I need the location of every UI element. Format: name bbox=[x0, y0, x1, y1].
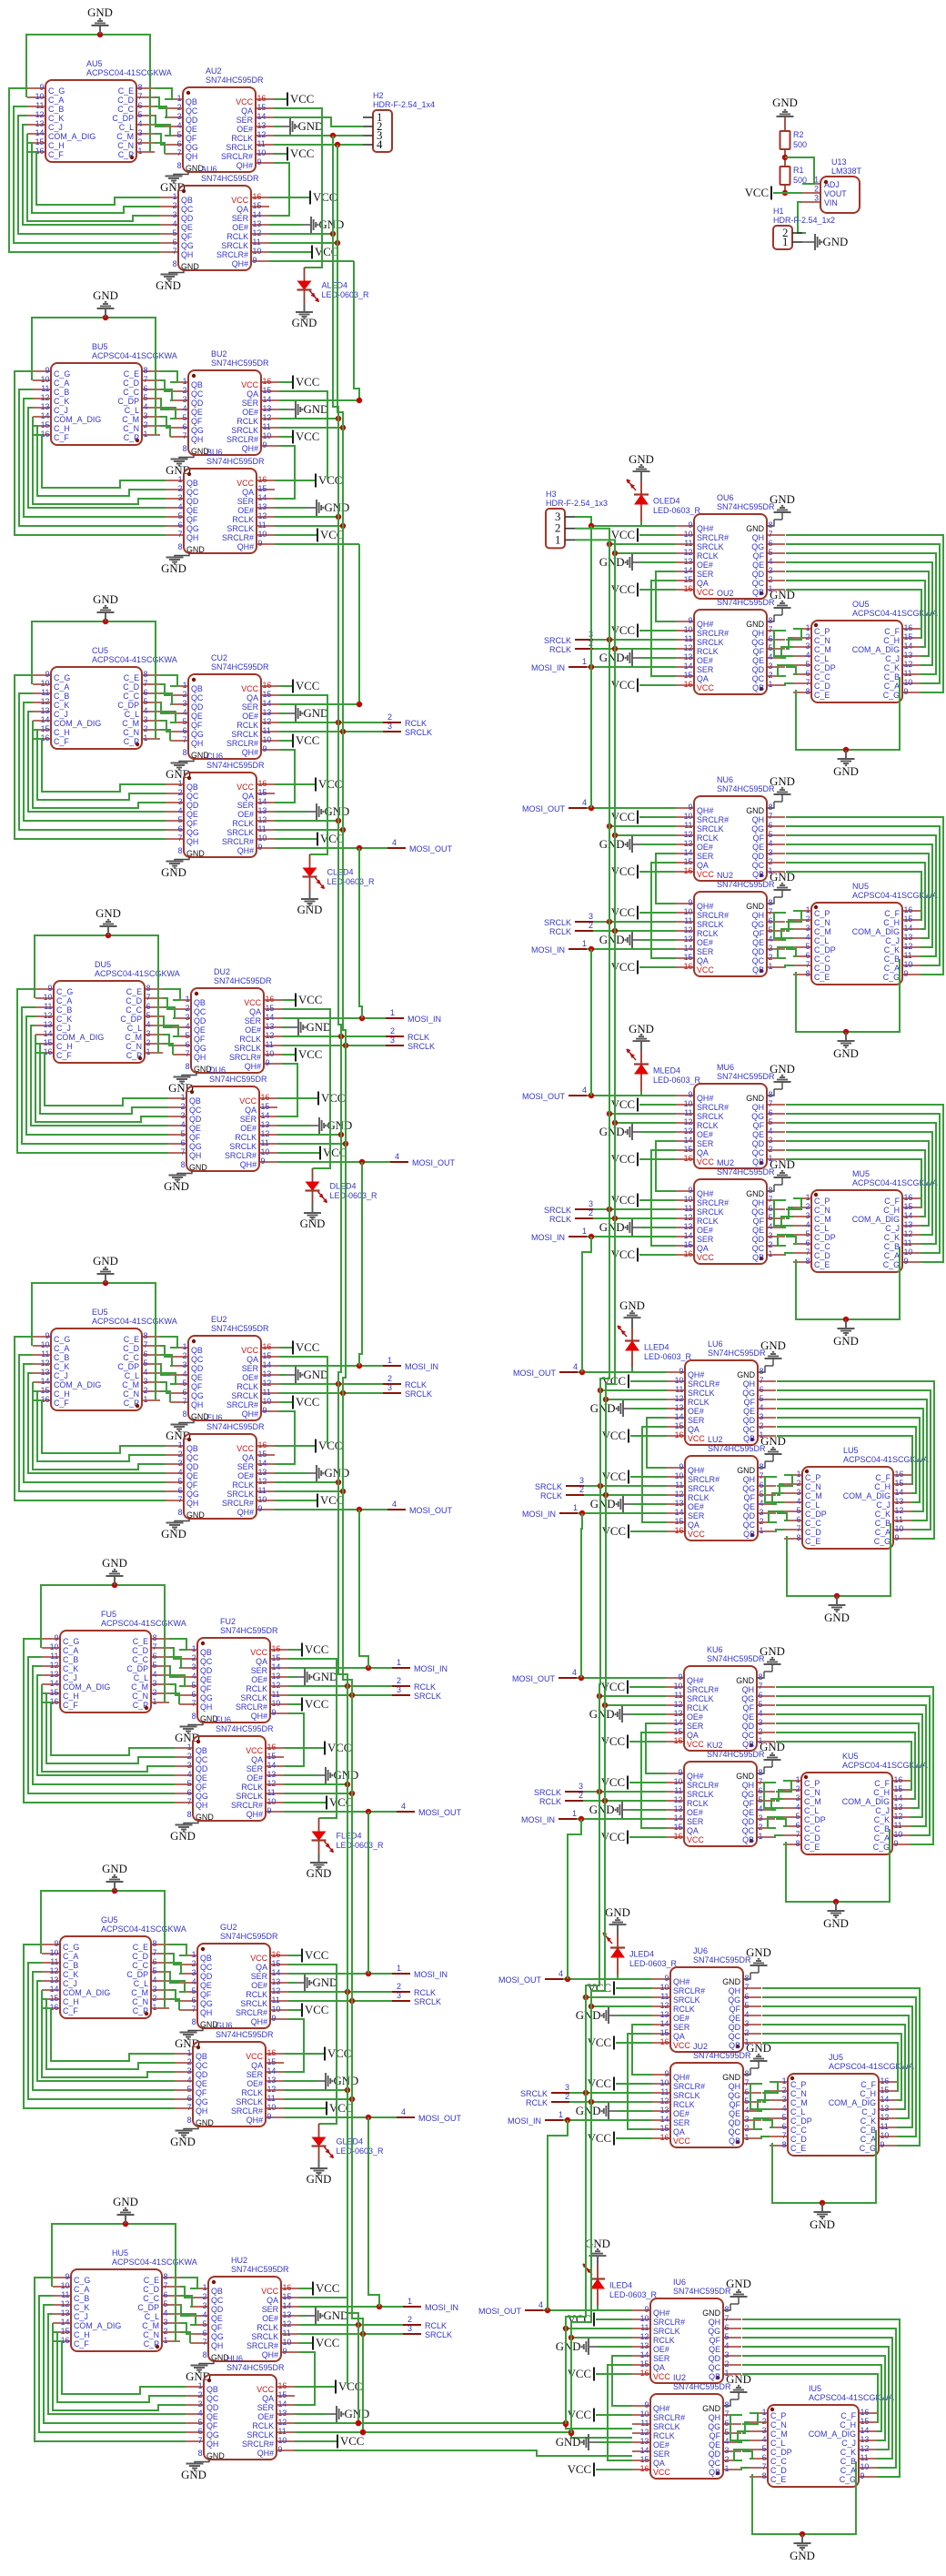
svg-text:SER: SER bbox=[245, 1016, 261, 1025]
svg-text:6: 6 bbox=[760, 1385, 764, 1394]
svg-text:SN74HC595DR: SN74HC595DR bbox=[717, 502, 775, 511]
svg-text:SER: SER bbox=[687, 1722, 703, 1731]
svg-text:4: 4 bbox=[559, 1969, 563, 1978]
svg-text:12: 12 bbox=[253, 228, 262, 237]
svg-text:QH#: QH# bbox=[687, 1772, 703, 1781]
svg-text:QB: QB bbox=[186, 479, 198, 488]
svg-text:GND: GND bbox=[619, 1299, 645, 1312]
svg-text:C_B: C_B bbox=[74, 2294, 89, 2303]
svg-text:QA: QA bbox=[247, 1355, 258, 1364]
svg-text:MOSI_IN: MOSI_IN bbox=[522, 1510, 556, 1519]
svg-text:C_K: C_K bbox=[874, 1815, 890, 1824]
svg-text:C_H: C_H bbox=[883, 918, 900, 927]
svg-text:C_E: C_E bbox=[124, 1335, 139, 1344]
svg-text:2: 2 bbox=[153, 1994, 157, 2003]
svg-text:QH#: QH# bbox=[653, 2308, 669, 2318]
svg-text:9: 9 bbox=[55, 1633, 59, 1642]
svg-text:16: 16 bbox=[272, 1950, 281, 1959]
svg-text:C_DP: C_DP bbox=[814, 945, 836, 955]
svg-text:5: 5 bbox=[144, 1359, 148, 1368]
svg-text:C_B: C_B bbox=[54, 388, 69, 397]
svg-text:C_F: C_F bbox=[54, 737, 69, 746]
svg-text:RCLK: RCLK bbox=[697, 833, 719, 843]
svg-text:GND: GND bbox=[599, 1221, 625, 1234]
svg-text:C_E: C_E bbox=[144, 2276, 159, 2285]
svg-text:GND: GND bbox=[810, 2218, 835, 2231]
svg-text:QA: QA bbox=[697, 1244, 709, 1253]
svg-text:MOSI_IN: MOSI_IN bbox=[414, 1664, 448, 1673]
svg-text:QE: QE bbox=[742, 1808, 754, 1817]
svg-text:6: 6 bbox=[745, 2087, 750, 2096]
svg-text:1: 1 bbox=[582, 1227, 587, 1236]
svg-text:4: 4 bbox=[762, 2435, 767, 2444]
svg-text:5: 5 bbox=[153, 1966, 157, 1975]
svg-text:QG: QG bbox=[751, 638, 764, 647]
svg-text:QB: QB bbox=[752, 1157, 764, 1167]
svg-text:8: 8 bbox=[187, 2116, 192, 2125]
svg-text:GND: GND bbox=[736, 1772, 754, 1781]
svg-text:C_B: C_B bbox=[884, 955, 900, 964]
svg-text:6: 6 bbox=[760, 1480, 764, 1490]
svg-text:2: 2 bbox=[769, 1240, 773, 1249]
svg-text:16: 16 bbox=[261, 1093, 270, 1102]
svg-text:QH#: QH# bbox=[247, 1810, 263, 1819]
svg-text:1: 1 bbox=[796, 1775, 800, 1784]
svg-text:QF: QF bbox=[753, 1121, 765, 1130]
svg-text:COM_A_DIG: COM_A_DIG bbox=[809, 2430, 856, 2439]
svg-text:7: 7 bbox=[806, 960, 810, 969]
svg-text:ACPSC04-41SCGKWA: ACPSC04-41SCGKWA bbox=[92, 351, 177, 360]
svg-text:QH#: QH# bbox=[251, 2017, 267, 2026]
svg-text:OU5: OU5 bbox=[852, 600, 870, 609]
svg-text:10: 10 bbox=[41, 1340, 50, 1349]
svg-text:QG: QG bbox=[186, 524, 199, 533]
svg-text:16: 16 bbox=[253, 192, 262, 201]
svg-text:SRCLK: SRCLK bbox=[697, 1207, 724, 1217]
svg-text:14: 14 bbox=[660, 2115, 669, 2124]
svg-text:QA: QA bbox=[251, 2061, 263, 2070]
svg-text:12: 12 bbox=[41, 393, 50, 402]
svg-text:QH#: QH# bbox=[245, 1062, 261, 1071]
svg-text:2: 2 bbox=[144, 420, 148, 429]
svg-text:C_L: C_L bbox=[125, 710, 139, 719]
svg-text:VCC: VCC bbox=[653, 2468, 670, 2477]
svg-text:2: 2 bbox=[183, 690, 187, 699]
svg-text:QC: QC bbox=[743, 1520, 756, 1530]
svg-text:3: 3 bbox=[144, 715, 148, 724]
svg-text:MU6: MU6 bbox=[717, 1063, 734, 1072]
svg-text:QF: QF bbox=[743, 1799, 755, 1808]
svg-text:14: 14 bbox=[50, 1679, 59, 1688]
svg-text:C_F: C_F bbox=[884, 627, 900, 636]
svg-text:C_B: C_B bbox=[63, 1655, 78, 1664]
svg-text:SRCLR#: SRCLR# bbox=[226, 739, 258, 748]
svg-text:QB: QB bbox=[729, 2041, 740, 2050]
svg-text:7: 7 bbox=[769, 530, 773, 539]
svg-text:1: 1 bbox=[769, 680, 773, 689]
svg-text:2: 2 bbox=[760, 1421, 764, 1430]
svg-text:SRCLR#: SRCLR# bbox=[697, 629, 729, 638]
svg-text:2: 2 bbox=[769, 671, 773, 680]
svg-text:C_B: C_B bbox=[840, 2457, 856, 2466]
svg-text:14: 14 bbox=[904, 1211, 913, 1220]
svg-text:9: 9 bbox=[263, 440, 267, 450]
svg-text:13: 13 bbox=[860, 2435, 870, 2444]
svg-text:VCC: VCC bbox=[745, 187, 769, 199]
svg-text:GND: GND bbox=[790, 2550, 815, 2562]
svg-text:C_K: C_K bbox=[54, 701, 69, 710]
svg-text:11: 11 bbox=[860, 2453, 869, 2462]
svg-text:11: 11 bbox=[283, 2329, 291, 2338]
svg-text:GND: GND bbox=[770, 589, 795, 601]
svg-text:C_DP: C_DP bbox=[112, 114, 134, 123]
svg-text:LED-0603_R: LED-0603_R bbox=[337, 2147, 385, 2156]
svg-text:C_F: C_F bbox=[884, 1197, 900, 1206]
svg-text:6: 6 bbox=[183, 726, 187, 735]
svg-text:1: 1 bbox=[397, 1964, 401, 1973]
svg-text:15: 15 bbox=[41, 724, 50, 733]
svg-text:10: 10 bbox=[35, 92, 45, 101]
svg-text:C_P: C_P bbox=[133, 2006, 148, 2015]
svg-text:ACPSC04-41SCGKWA: ACPSC04-41SCGKWA bbox=[101, 1924, 186, 1934]
svg-text:12: 12 bbox=[272, 1681, 281, 1690]
svg-text:2: 2 bbox=[589, 921, 593, 930]
svg-text:8: 8 bbox=[178, 1508, 183, 1517]
svg-text:3: 3 bbox=[759, 1718, 763, 1727]
svg-text:C_E: C_E bbox=[124, 673, 139, 682]
svg-text:QB: QB bbox=[191, 1346, 203, 1355]
svg-text:10: 10 bbox=[278, 2436, 287, 2445]
svg-text:C_M: C_M bbox=[814, 1215, 831, 1224]
svg-text:2: 2 bbox=[178, 788, 183, 797]
svg-text:SER: SER bbox=[688, 1416, 704, 1425]
svg-text:1: 1 bbox=[144, 1395, 148, 1404]
svg-text:5: 5 bbox=[138, 110, 143, 119]
svg-text:QH#: QH# bbox=[237, 542, 254, 551]
svg-text:15: 15 bbox=[35, 137, 45, 146]
svg-text:QE: QE bbox=[191, 1373, 203, 1382]
svg-text:10: 10 bbox=[50, 1948, 59, 1957]
svg-text:2: 2 bbox=[164, 2327, 168, 2336]
svg-text:OE#: OE# bbox=[242, 1373, 258, 1382]
svg-text:C_M: C_M bbox=[790, 2098, 808, 2107]
svg-text:MOSI_OUT: MOSI_OUT bbox=[409, 844, 453, 854]
svg-text:2: 2 bbox=[806, 914, 810, 924]
svg-text:9: 9 bbox=[895, 1533, 900, 1542]
svg-text:12: 12 bbox=[278, 2418, 287, 2427]
svg-text:GND: GND bbox=[161, 1528, 186, 1541]
svg-text:GND: GND bbox=[770, 775, 795, 788]
svg-text:9: 9 bbox=[904, 969, 909, 978]
svg-text:4: 4 bbox=[806, 651, 810, 660]
svg-text:QF: QF bbox=[200, 1990, 212, 1999]
svg-text:4: 4 bbox=[178, 806, 183, 815]
svg-text:13: 13 bbox=[61, 2308, 70, 2318]
svg-text:4: 4 bbox=[392, 838, 397, 847]
svg-text:VCC: VCC bbox=[305, 1949, 328, 1962]
svg-text:GND: GND bbox=[161, 866, 186, 879]
svg-text:QH: QH bbox=[200, 2008, 212, 2017]
svg-text:2: 2 bbox=[408, 2315, 412, 2324]
svg-text:9: 9 bbox=[665, 1974, 669, 1983]
svg-text:14: 14 bbox=[35, 128, 45, 137]
svg-text:C_E: C_E bbox=[124, 369, 139, 379]
svg-text:C_H: C_H bbox=[48, 141, 65, 150]
svg-text:GND: GND bbox=[824, 1611, 850, 1624]
svg-text:BU6: BU6 bbox=[206, 448, 223, 457]
svg-text:C_E: C_E bbox=[770, 2475, 786, 2484]
svg-text:SRCLR#: SRCLR# bbox=[697, 533, 729, 542]
svg-text:SRCLK: SRCLK bbox=[673, 2091, 700, 2100]
svg-text:12: 12 bbox=[258, 511, 267, 520]
svg-text:8: 8 bbox=[725, 2400, 730, 2409]
svg-text:RCLK: RCLK bbox=[549, 645, 571, 654]
svg-text:C_B: C_B bbox=[54, 692, 69, 701]
svg-text:7: 7 bbox=[183, 431, 187, 440]
svg-text:11: 11 bbox=[881, 2122, 889, 2131]
svg-text:RCLK: RCLK bbox=[235, 1133, 257, 1142]
svg-text:QD: QD bbox=[743, 1511, 755, 1520]
svg-text:QH: QH bbox=[181, 250, 193, 259]
svg-text:SN74HC595DR: SN74HC595DR bbox=[209, 1075, 267, 1084]
svg-text:SRCLK: SRCLK bbox=[226, 828, 254, 837]
svg-text:SN74HC595DR: SN74HC595DR bbox=[693, 1955, 751, 1965]
svg-text:13: 13 bbox=[904, 1220, 913, 1229]
svg-text:9: 9 bbox=[55, 1939, 59, 1948]
svg-text:7: 7 bbox=[187, 2103, 192, 2112]
svg-text:6: 6 bbox=[782, 2122, 787, 2131]
svg-text:GND: GND bbox=[770, 1158, 795, 1171]
svg-text:C_E: C_E bbox=[118, 86, 134, 96]
svg-text:2: 2 bbox=[762, 2417, 767, 2426]
svg-text:15: 15 bbox=[675, 1517, 684, 1526]
svg-text:5: 5 bbox=[769, 1213, 773, 1222]
svg-text:QC: QC bbox=[743, 1425, 756, 1434]
svg-text:QF: QF bbox=[186, 819, 198, 828]
svg-text:QH#: QH# bbox=[242, 1409, 258, 1419]
svg-text:C_G: C_G bbox=[63, 1637, 79, 1646]
svg-text:10: 10 bbox=[261, 1147, 270, 1157]
svg-text:8: 8 bbox=[192, 1712, 196, 1721]
svg-text:9: 9 bbox=[689, 803, 693, 812]
svg-text:QB: QB bbox=[186, 1444, 198, 1453]
svg-text:C_N: C_N bbox=[132, 1692, 148, 1701]
svg-text:3: 3 bbox=[187, 2066, 192, 2076]
svg-text:QH: QH bbox=[752, 911, 764, 920]
svg-text:3: 3 bbox=[178, 493, 183, 502]
svg-text:7: 7 bbox=[138, 92, 143, 101]
svg-text:RCLK: RCLK bbox=[236, 721, 258, 730]
svg-text:GND: GND bbox=[313, 1976, 338, 1989]
svg-text:3: 3 bbox=[725, 2446, 730, 2455]
svg-text:12: 12 bbox=[640, 2428, 649, 2437]
svg-text:1: 1 bbox=[782, 236, 788, 248]
svg-text:15: 15 bbox=[684, 575, 693, 584]
svg-text:OE#: OE# bbox=[697, 656, 713, 665]
svg-text:FLED4: FLED4 bbox=[337, 1832, 362, 1841]
svg-text:6: 6 bbox=[178, 520, 183, 530]
svg-text:SN74HC595DR: SN74HC595DR bbox=[214, 976, 272, 985]
svg-text:RCLK: RCLK bbox=[226, 232, 248, 241]
svg-text:C_B: C_B bbox=[874, 1824, 890, 1834]
svg-text:10: 10 bbox=[61, 2281, 70, 2290]
svg-text:QE: QE bbox=[752, 938, 764, 947]
svg-text:QF: QF bbox=[200, 1684, 212, 1693]
svg-text:2: 2 bbox=[173, 201, 177, 210]
svg-text:C_K: C_K bbox=[54, 397, 69, 406]
svg-text:2: 2 bbox=[387, 1374, 392, 1383]
svg-text:SER: SER bbox=[697, 1139, 713, 1148]
svg-text:10: 10 bbox=[283, 2338, 292, 2347]
svg-text:QD: QD bbox=[186, 801, 198, 810]
svg-text:15: 15 bbox=[904, 914, 913, 924]
svg-text:C_D: C_D bbox=[132, 1952, 148, 1961]
svg-text:14: 14 bbox=[640, 2350, 649, 2359]
svg-text:C_L: C_L bbox=[790, 2107, 805, 2116]
svg-text:1: 1 bbox=[397, 1658, 401, 1667]
svg-text:QA: QA bbox=[653, 2459, 665, 2468]
svg-text:LED-0603_R: LED-0603_R bbox=[322, 290, 370, 299]
svg-text:9: 9 bbox=[679, 1367, 684, 1376]
svg-text:SRCLK: SRCLK bbox=[425, 2330, 452, 2339]
svg-text:2: 2 bbox=[769, 857, 773, 866]
svg-text:2: 2 bbox=[183, 386, 187, 395]
svg-text:QA: QA bbox=[245, 1106, 257, 1115]
svg-text:3: 3 bbox=[192, 1968, 196, 1977]
svg-text:11: 11 bbox=[684, 634, 692, 643]
svg-text:GND: GND bbox=[590, 1498, 616, 1510]
svg-text:C_E: C_E bbox=[804, 1843, 820, 1852]
svg-text:9: 9 bbox=[40, 83, 45, 92]
svg-text:MOSI_OUT: MOSI_OUT bbox=[418, 2114, 462, 2123]
svg-text:4: 4 bbox=[144, 402, 148, 411]
svg-text:2: 2 bbox=[760, 1517, 764, 1526]
svg-text:C_C: C_C bbox=[123, 692, 139, 701]
svg-text:C_F: C_F bbox=[63, 1701, 78, 1710]
svg-text:3: 3 bbox=[408, 2324, 412, 2333]
svg-text:VCC: VCC bbox=[236, 97, 253, 106]
svg-text:QG: QG bbox=[194, 1044, 206, 1053]
svg-text:15: 15 bbox=[904, 632, 913, 641]
svg-text:12: 12 bbox=[860, 2444, 870, 2453]
svg-text:QF: QF bbox=[709, 2431, 721, 2440]
svg-text:16: 16 bbox=[684, 584, 693, 593]
svg-text:C_D: C_D bbox=[132, 1646, 148, 1655]
svg-text:C_H: C_H bbox=[54, 728, 70, 737]
svg-text:QC: QC bbox=[729, 2032, 741, 2041]
svg-text:1: 1 bbox=[408, 2297, 412, 2306]
svg-text:5: 5 bbox=[769, 1117, 773, 1126]
svg-text:QB: QB bbox=[752, 588, 764, 597]
svg-text:10: 10 bbox=[41, 375, 50, 384]
svg-text:2: 2 bbox=[806, 1202, 810, 1211]
svg-text:GND: GND bbox=[307, 1021, 332, 1034]
svg-text:2: 2 bbox=[745, 2124, 750, 2133]
svg-text:10: 10 bbox=[267, 2103, 277, 2112]
svg-text:3: 3 bbox=[796, 1793, 800, 1803]
svg-text:13: 13 bbox=[253, 219, 262, 228]
svg-text:GND: GND bbox=[556, 2340, 581, 2353]
svg-text:RCLK: RCLK bbox=[241, 2088, 263, 2097]
svg-text:GND: GND bbox=[196, 1813, 214, 1822]
svg-text:8: 8 bbox=[796, 1839, 800, 1848]
svg-text:C_M: C_M bbox=[142, 2321, 159, 2330]
svg-text:7: 7 bbox=[782, 2131, 787, 2140]
svg-text:MOSI_OUT: MOSI_OUT bbox=[512, 1674, 556, 1683]
svg-text:C_P: C_P bbox=[790, 2080, 806, 2089]
svg-text:5: 5 bbox=[144, 393, 148, 402]
svg-text:KU6: KU6 bbox=[707, 1645, 723, 1654]
svg-text:C_F: C_F bbox=[840, 2411, 856, 2420]
svg-text:BU2: BU2 bbox=[211, 349, 227, 359]
svg-text:QH: QH bbox=[743, 1475, 755, 1484]
svg-text:C_A: C_A bbox=[56, 996, 72, 1005]
svg-text:C_A: C_A bbox=[875, 1528, 891, 1537]
svg-text:10: 10 bbox=[684, 1195, 693, 1204]
svg-text:QB: QB bbox=[752, 965, 764, 975]
svg-text:5: 5 bbox=[178, 511, 183, 520]
svg-text:QH#: QH# bbox=[688, 1370, 704, 1379]
svg-text:C_G: C_G bbox=[63, 1943, 79, 1952]
svg-text:15: 15 bbox=[41, 420, 50, 429]
svg-text:C_A: C_A bbox=[54, 1344, 69, 1353]
svg-text:4: 4 bbox=[769, 557, 773, 566]
svg-text:4: 4 bbox=[573, 1362, 578, 1371]
svg-text:C_E: C_E bbox=[133, 1637, 148, 1646]
svg-text:QE: QE bbox=[752, 656, 764, 665]
svg-text:RCLK: RCLK bbox=[697, 1121, 719, 1130]
svg-text:C_DP: C_DP bbox=[120, 1015, 142, 1024]
svg-text:10: 10 bbox=[674, 1777, 683, 1786]
svg-text:8: 8 bbox=[183, 748, 187, 757]
svg-text:4: 4 bbox=[178, 502, 183, 511]
svg-text:8: 8 bbox=[144, 670, 148, 679]
svg-text:7: 7 bbox=[178, 833, 183, 843]
svg-text:14: 14 bbox=[674, 1813, 683, 1823]
svg-text:C_J: C_J bbox=[876, 1500, 891, 1510]
svg-text:5: 5 bbox=[192, 1681, 196, 1690]
svg-text:GND: GND bbox=[760, 1741, 785, 1753]
svg-text:SRCLK: SRCLK bbox=[229, 1142, 257, 1151]
svg-text:14: 14 bbox=[261, 1111, 270, 1120]
svg-text:C_F: C_F bbox=[74, 2339, 89, 2349]
svg-text:SRCLK: SRCLK bbox=[231, 426, 258, 435]
svg-text:2: 2 bbox=[198, 2390, 203, 2399]
svg-text:SRCLR#: SRCLR# bbox=[688, 1379, 720, 1389]
svg-text:C_N: C_N bbox=[804, 1788, 820, 1797]
svg-text:QC: QC bbox=[752, 956, 765, 965]
svg-text:10: 10 bbox=[266, 1049, 275, 1058]
svg-text:16: 16 bbox=[904, 905, 913, 914]
svg-text:7: 7 bbox=[192, 2005, 196, 2014]
svg-text:C_C: C_C bbox=[126, 1005, 142, 1015]
svg-text:OE#: OE# bbox=[251, 1675, 267, 1684]
svg-text:QB: QB bbox=[191, 684, 203, 693]
svg-text:6: 6 bbox=[144, 688, 148, 697]
svg-text:QC: QC bbox=[742, 1731, 755, 1740]
svg-text:2: 2 bbox=[144, 724, 148, 733]
svg-text:1: 1 bbox=[144, 733, 148, 742]
svg-text:QB: QB bbox=[196, 2052, 207, 2061]
svg-text:IU5: IU5 bbox=[809, 2384, 821, 2393]
svg-text:6: 6 bbox=[725, 2419, 730, 2428]
svg-text:6: 6 bbox=[187, 2094, 192, 2103]
svg-text:14: 14 bbox=[257, 112, 267, 121]
svg-text:11: 11 bbox=[41, 384, 49, 393]
svg-text:3: 3 bbox=[146, 1029, 151, 1038]
svg-text:1: 1 bbox=[797, 1470, 801, 1479]
svg-text:9: 9 bbox=[881, 2140, 885, 2149]
